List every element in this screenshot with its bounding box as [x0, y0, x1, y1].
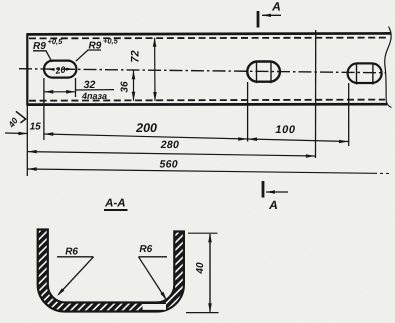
horizontal centerline: [19, 69, 386, 73]
dimension 15 line (outside arrow): [5, 132, 27, 135]
dimension 32 extension line left: [43, 78, 45, 140]
slot 2 centre ticks: [256, 61, 258, 84]
section cut mark A (bottom): [262, 181, 265, 198]
dimension 100 line: [248, 139, 349, 142]
dimension 72 line: [154, 38, 156, 101]
dimension 200 line: [44, 134, 248, 139]
leader R6 left: [57, 256, 94, 258]
bottom edge of plate: [27, 103, 387, 106]
leader R6 right: [139, 256, 168, 258]
extension line at x=348.7: [348, 83, 350, 146]
extension line at x=248: [247, 82, 249, 142]
hidden bend line upper (dashed): [29, 37, 389, 40]
slot 1: [44, 61, 76, 78]
dimension 36 line: [133, 70, 135, 101]
leader for right R9: [76, 50, 101, 61]
leader for left R9: [33, 51, 52, 62]
dimension 560 line: [27, 169, 374, 173]
hidden bend line lower (dashed): [29, 100, 385, 101]
dimension 280 line: [27, 152, 315, 156]
extension line at x=315.5: [315, 30, 317, 158]
section cut mark A (top): [257, 11, 260, 28]
dimension 32 line with arrows: [44, 91, 76, 93]
left edge of plate: [26, 33, 28, 105]
dimension 32 extension line right: [75, 78, 77, 97]
top edge of plate: [27, 33, 391, 34]
slot 3 centre ticks: [356, 63, 358, 85]
slot 3: [348, 63, 382, 83]
break line (right end): [385, 27, 392, 108]
slot 1 inner dimension arrows and text 20: [48, 68, 55, 71]
slot gap in section bottom: [143, 304, 167, 310]
dimension 40 (section height): [188, 232, 218, 234]
dimension 32 shelf: [76, 89, 115, 91]
slot 2: [247, 62, 280, 82]
channel cross-section (hatched): [38, 230, 184, 312]
extension line at x=27: [26, 105, 28, 176]
